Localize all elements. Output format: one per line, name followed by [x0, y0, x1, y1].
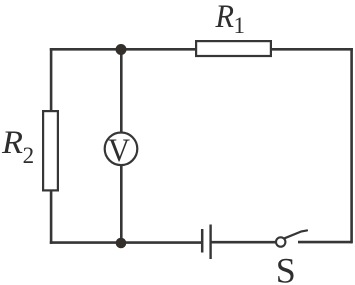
svg-text:2: 2: [23, 143, 34, 168]
svg-text:S: S: [276, 251, 296, 285]
svg-text:R: R: [1, 125, 23, 161]
svg-text:1: 1: [234, 13, 246, 38]
svg-text:V: V: [108, 133, 130, 169]
svg-text:R: R: [215, 0, 234, 35]
